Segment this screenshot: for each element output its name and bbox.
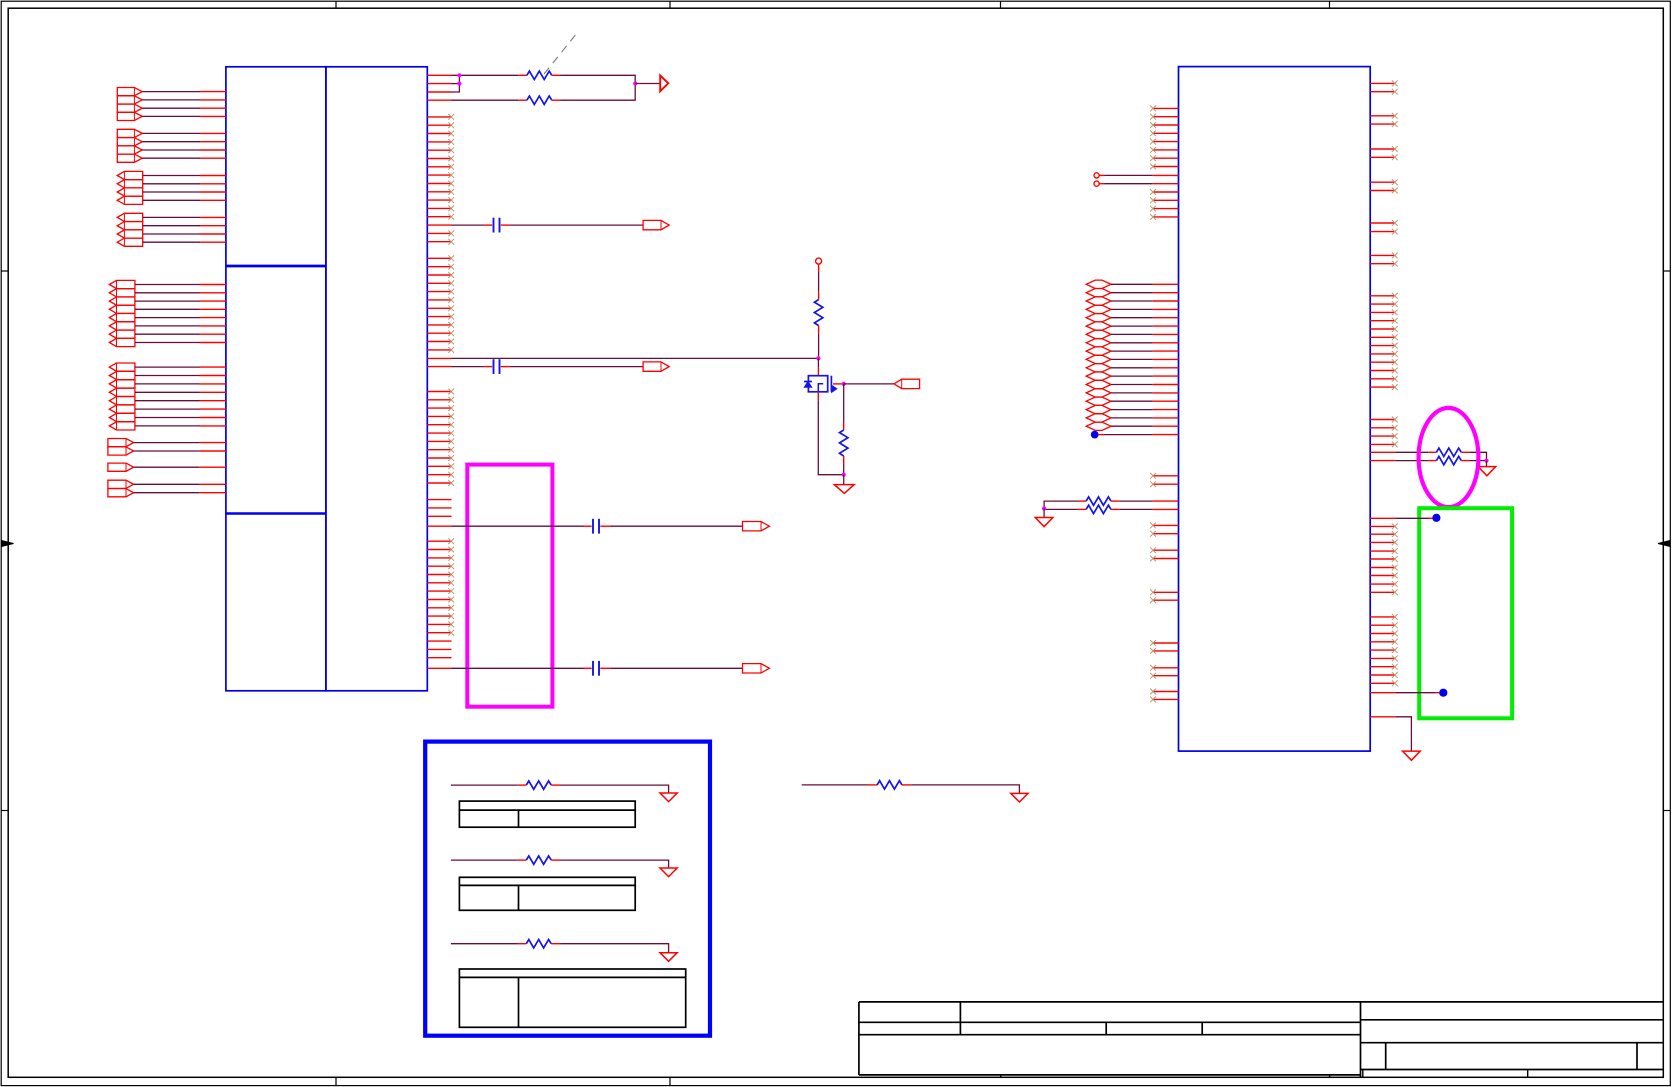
port group E4 with wire bbox=[109, 305, 226, 313]
net wire with R12 bbox=[451, 859, 526, 861]
port group F8 with wire bbox=[109, 422, 226, 430]
R1 output wire bbox=[552, 75, 635, 83]
port P6 bbox=[894, 379, 920, 388]
resistor R1 bbox=[527, 71, 552, 79]
C4 wire to port P5 bbox=[600, 667, 742, 669]
wire to ground G3 bbox=[1486, 461, 1488, 467]
IC U1 left section bbox=[226, 67, 326, 691]
ground G2 bbox=[1035, 518, 1053, 527]
C2 wire to port P3 bbox=[501, 366, 643, 368]
net wire with R11 bbox=[451, 784, 526, 786]
wire R3 to node bbox=[818, 326, 820, 359]
frame center arrow right bbox=[1658, 541, 1670, 547]
Q1 source wire bbox=[818, 392, 843, 475]
junction dot D bbox=[816, 356, 820, 360]
U1 pin wire to C4 bbox=[427, 667, 591, 669]
port group E3 with wire bbox=[109, 297, 226, 305]
bidirectional port H18 with wire bbox=[1086, 422, 1178, 430]
U1 pin wire to C1 bbox=[427, 224, 492, 226]
ground G5 bbox=[1011, 793, 1028, 802]
frame zone ticks top/bottom bbox=[336, 1, 1330, 1086]
bidirectional port H1 with wire bbox=[1086, 280, 1178, 288]
R9 wire to ground corner bbox=[902, 785, 1019, 794]
bidirectional port H10 with wire bbox=[1086, 355, 1178, 363]
port group H1 with wire bbox=[108, 463, 226, 471]
open pin circle 2 with wire bbox=[1094, 181, 1179, 186]
U1 right no-connect pins (x-marked) bbox=[427, 114, 454, 636]
bidirectional port H13 with wire bbox=[1086, 380, 1178, 388]
wire to ground G1 bbox=[843, 475, 845, 485]
C3 wire to port P4 bbox=[600, 525, 742, 527]
ground G1 bbox=[834, 485, 854, 494]
wire to ground G2 bbox=[1043, 509, 1045, 518]
port P2 bbox=[643, 220, 669, 229]
bidirectional port H6 with wire bbox=[1086, 322, 1178, 330]
net wire with R13 bbox=[451, 943, 526, 945]
wire gate node to R4 bbox=[843, 384, 845, 430]
port group G1 with wire bbox=[108, 439, 226, 447]
value table 2 bbox=[459, 877, 635, 910]
U2 pin wire to ground G4 bbox=[1370, 717, 1411, 751]
U2 pin wire to R6 bbox=[1111, 508, 1178, 510]
R7 wire corner bbox=[1461, 452, 1486, 460]
junction dot B bbox=[457, 82, 461, 86]
IC U1 section divider 1 bbox=[226, 265, 326, 268]
wire node to Q1 drain bbox=[817, 358, 819, 375]
U1 pin row3 jog wire bbox=[427, 75, 459, 92]
port group D4 with wire bbox=[117, 238, 226, 246]
port group E2 with wire bbox=[109, 289, 226, 297]
U2 right no-connect pins bbox=[1370, 81, 1398, 687]
port group F1 with wire bbox=[109, 363, 226, 371]
U1 pin row4 wire to R2 bbox=[427, 99, 527, 101]
port group E5 with wire bbox=[109, 314, 226, 322]
port group B2 with wire bbox=[117, 138, 226, 146]
capacitor C2 bbox=[494, 359, 500, 374]
net wire with R9 bbox=[802, 784, 877, 786]
bidirectional port H16 with wire bbox=[1086, 405, 1178, 413]
ground G6 bbox=[660, 793, 677, 802]
port group E1 with wire bbox=[109, 280, 226, 288]
blue group box bbox=[425, 742, 710, 1036]
U2 left no-connect pins lower bbox=[1150, 473, 1178, 702]
ground G8 bbox=[660, 953, 677, 962]
junction dot A bbox=[457, 73, 461, 77]
ground G7 bbox=[660, 868, 677, 877]
green highlight rectangle bbox=[1419, 508, 1512, 718]
U2 pin wire to R7 bbox=[1370, 451, 1436, 453]
R2 output wire bbox=[552, 84, 635, 101]
port group F6 with wire bbox=[109, 405, 226, 413]
bidirectional port H3 with wire bbox=[1086, 297, 1178, 305]
U2 pin wire to test point 1 bbox=[1370, 514, 1440, 522]
capacitor C1 bbox=[494, 218, 500, 233]
magenta highlight rectangle bbox=[467, 465, 552, 707]
bidirectional port H4 with wire bbox=[1086, 305, 1178, 313]
annotation dashed line bbox=[544, 33, 577, 74]
pull-up open pin circle bbox=[816, 258, 822, 264]
port group C3 with wire bbox=[117, 188, 226, 196]
U1 pin wire to Q1 node bbox=[427, 357, 818, 359]
junction dot C bbox=[633, 81, 637, 85]
port group E6 with wire bbox=[109, 322, 226, 330]
resistor R5 bbox=[1086, 497, 1111, 505]
blue junction dot row wire bbox=[1091, 431, 1179, 439]
frame center arrow left bbox=[2, 541, 14, 547]
R8 wire to node bbox=[1461, 460, 1486, 462]
port group I2 with wire bbox=[108, 489, 226, 497]
capacitor C4 bbox=[593, 661, 599, 676]
U1 pin row2 wire bbox=[427, 83, 459, 85]
resistor R12 bbox=[526, 856, 551, 864]
R11 wire to ground bbox=[551, 785, 668, 793]
port group B1 with wire bbox=[117, 129, 226, 137]
port group A1 with wire bbox=[117, 88, 226, 96]
value table 3 bbox=[459, 969, 685, 1027]
port group A3 with wire bbox=[117, 104, 226, 112]
bidirectional port H9 with wire bbox=[1086, 347, 1178, 355]
wire R4 to gnd node bbox=[843, 456, 845, 475]
resistor R13 bbox=[526, 940, 551, 948]
value table 1 bbox=[459, 801, 635, 827]
port P4 bbox=[743, 522, 770, 531]
port group A4 with wire bbox=[117, 112, 226, 120]
port group E7 with wire bbox=[109, 330, 226, 338]
resistor R4 bbox=[840, 430, 848, 456]
U2 pin wire to test point 2 bbox=[1370, 689, 1447, 697]
U1 pin wire to C2 bbox=[427, 366, 492, 368]
open pin circle 1 with wire bbox=[1094, 173, 1179, 178]
resistor R11 bbox=[526, 781, 551, 789]
U1 pin row1 wire to R1 bbox=[427, 74, 527, 76]
port group F4 with wire bbox=[109, 388, 226, 396]
bidirectional port H17 with wire bbox=[1086, 414, 1178, 422]
IC U1 right section bbox=[326, 67, 427, 691]
IC U1 section divider 2 bbox=[226, 512, 326, 514]
C1 wire to port P2 bbox=[501, 224, 643, 226]
port group I1 with wire bbox=[108, 480, 226, 488]
capacitor C3 bbox=[593, 519, 599, 534]
resistor R2 bbox=[527, 96, 552, 104]
port group C2 with wire bbox=[117, 180, 226, 188]
port group B3 with wire bbox=[117, 146, 226, 154]
port group D1 with wire bbox=[117, 213, 226, 221]
junction dot G bbox=[1042, 506, 1046, 510]
port group A2 with wire bbox=[117, 96, 226, 104]
ground G3 bbox=[1478, 467, 1496, 476]
transistor Q1 bbox=[804, 376, 837, 393]
port P5 bbox=[743, 664, 770, 673]
bidirectional port H12 with wire bbox=[1086, 372, 1178, 380]
U1 pin wire to C3 bbox=[427, 525, 591, 527]
U1 right unconnected plain pins bbox=[427, 500, 451, 658]
resistor R7 bbox=[1436, 448, 1461, 456]
resistor R9 bbox=[877, 781, 902, 789]
port group D2 with wire bbox=[117, 222, 226, 230]
port group F7 with wire bbox=[109, 413, 226, 421]
port group F3 with wire bbox=[109, 380, 226, 388]
bidirectional port H7 with wire bbox=[1086, 330, 1178, 338]
port group D3 with wire bbox=[117, 230, 226, 238]
bidirectional port H5 with wire bbox=[1086, 314, 1178, 322]
R13 wire to ground bbox=[551, 944, 668, 953]
R12 wire to ground bbox=[551, 860, 668, 868]
resistor R6 bbox=[1086, 505, 1111, 513]
R6 wire to gnd node bbox=[1044, 508, 1086, 510]
bidirectional port H15 with wire bbox=[1086, 397, 1178, 405]
resistor R8 bbox=[1436, 456, 1461, 464]
title block bbox=[859, 1002, 1663, 1077]
port P3 bbox=[643, 362, 669, 371]
junction dot F bbox=[842, 473, 846, 477]
wire gate node to port P6 bbox=[844, 383, 894, 385]
IC U2 body bbox=[1179, 67, 1371, 752]
U2 pin wire to R8 bbox=[1370, 460, 1436, 462]
R5 wire to gnd corner bbox=[1044, 501, 1086, 508]
port group C1 with wire bbox=[117, 171, 226, 179]
port group F2 with wire bbox=[109, 371, 226, 379]
wire to port P1 bbox=[635, 83, 660, 85]
port group B4 with wire bbox=[117, 154, 226, 162]
bidirectional port H2 with wire bbox=[1086, 289, 1178, 297]
resistor R3 bbox=[814, 300, 822, 326]
sheet connector P1 (triangle) bbox=[660, 75, 668, 91]
wire circle to R3 bbox=[818, 264, 820, 300]
magenta highlight ellipse bbox=[1419, 408, 1479, 507]
port group E8 with wire bbox=[109, 338, 226, 346]
ground G4 bbox=[1403, 751, 1421, 760]
U2 pin wire to R5 bbox=[1111, 500, 1178, 502]
bidirectional port H14 with wire bbox=[1086, 389, 1178, 397]
bidirectional port H8 with wire bbox=[1086, 339, 1178, 347]
Q1 gate wire bbox=[833, 383, 844, 385]
junction dot H bbox=[1484, 459, 1488, 463]
frame zone ticks left/right bbox=[1, 271, 1671, 811]
port group G2 with wire bbox=[108, 447, 226, 455]
junction dot E bbox=[842, 382, 846, 386]
port group F5 with wire bbox=[109, 397, 226, 405]
port group C4 with wire bbox=[117, 196, 226, 204]
bidirectional port H11 with wire bbox=[1086, 364, 1178, 372]
U2 left no-connect pins group1 bbox=[1150, 106, 1178, 220]
